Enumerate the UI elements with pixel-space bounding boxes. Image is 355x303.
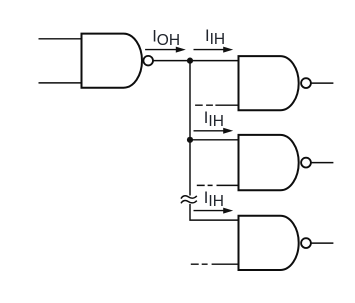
wire U4 input B dashed — [191, 263, 239, 265]
arrow IIH current 1 — [194, 47, 234, 53]
svg-text:IIH: IIH — [205, 27, 225, 48]
node B junction dot — [187, 137, 193, 143]
nand gate U2 body — [239, 56, 299, 110]
break symbol lower tilde — [181, 200, 197, 203]
nand gate U3 output bubble — [301, 158, 311, 168]
break symbol upper tilde — [181, 196, 197, 199]
nand gate U1 body — [82, 34, 143, 88]
arrow IIH current 2 — [194, 128, 234, 134]
wire U2 output — [311, 82, 333, 84]
nand gate U1 output bubble — [143, 56, 153, 66]
wire U3 input B dashed — [197, 184, 239, 186]
wire U2 input B dashed — [195, 104, 238, 106]
svg-text:IOH: IOH — [152, 28, 180, 49]
arrow IIH current 3 — [194, 208, 234, 214]
nand gate U4 output bubble — [301, 238, 311, 248]
wire U1 output to node A — [153, 60, 238, 62]
nand gate U3 body — [239, 135, 299, 190]
svg-text:IIH: IIH — [204, 189, 224, 210]
nand gate U4 body — [239, 216, 299, 270]
arrow IOH current — [145, 47, 186, 53]
svg-text:IIH: IIH — [204, 109, 224, 130]
wire U4 output — [311, 242, 333, 244]
wire node B to U3 input — [190, 139, 239, 141]
nand gate U2 output bubble — [301, 78, 311, 88]
node A junction dot — [187, 58, 193, 64]
wire vertical bus upper segment — [189, 61, 191, 196]
wire U3 output — [311, 162, 333, 164]
wire U1 input A — [39, 38, 82, 40]
wire U1 input B — [39, 82, 82, 84]
wire vertical bus lower segment to U4 input — [190, 204, 239, 220]
